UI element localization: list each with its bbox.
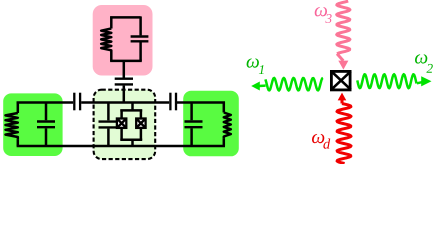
capacitor C3 (pink resonator) xyxy=(139,16,142,35)
inductor L2 (right resonator) xyxy=(223,102,226,113)
Josephson junction JJ2 xyxy=(136,119,145,128)
arrow omega2 xyxy=(421,76,431,86)
label omega3 xyxy=(315,7,332,23)
Josephson junction JJ1 xyxy=(117,119,126,128)
inductor L3 (pink resonator) xyxy=(110,16,113,28)
label omega2 xyxy=(415,54,433,73)
label omegad xyxy=(312,134,330,149)
mixer box xyxy=(331,71,350,90)
inductor L1 (left resonator) xyxy=(17,102,20,114)
feed capacitor (pink to JRM) xyxy=(123,61,126,78)
top rail wire middle xyxy=(81,101,169,104)
top rail wire left xyxy=(17,101,74,104)
SQUID bottom stub xyxy=(131,140,134,146)
arrow omegad xyxy=(338,93,347,101)
shunt capacitor (JRM) xyxy=(107,103,110,120)
mixer box X xyxy=(331,71,351,90)
bottom rail wire xyxy=(17,145,225,148)
SQUID top stub xyxy=(131,103,134,111)
SQUID loop right wire upper xyxy=(140,110,143,120)
left resonator box (green) xyxy=(3,93,62,156)
label omega1 xyxy=(247,58,264,74)
signal spring omega1 (left) xyxy=(259,84,266,87)
pink resonator loop top wire xyxy=(110,16,140,19)
JRM box (dashed) xyxy=(94,90,156,159)
right resonator box (green) xyxy=(183,91,239,157)
capacitor C1 (left resonator) xyxy=(45,102,48,121)
SQUID loop left wire upper xyxy=(120,110,123,120)
SQUID loop top wire xyxy=(120,109,142,112)
top rail wire right xyxy=(177,101,225,104)
arrow omega3 xyxy=(338,61,348,70)
pump spring omega3 (top, pink) xyxy=(337,1,350,54)
capacitor C2 (right resonator) xyxy=(190,102,193,121)
arrow omega1 xyxy=(251,82,260,91)
idler spring omega2 (right) xyxy=(357,74,416,88)
SQUID loop bottom wire xyxy=(120,139,142,142)
coupling capacitor right xyxy=(169,93,171,111)
signal resonator box (pink) xyxy=(93,5,153,76)
pump spring omegad (bottom, red) xyxy=(341,100,344,104)
pink resonator loop bottom wire xyxy=(110,60,142,63)
coupling capacitor left xyxy=(73,93,75,111)
SQUID loop left wire lower xyxy=(120,128,123,141)
SQUID loop right wire lower xyxy=(140,128,143,141)
